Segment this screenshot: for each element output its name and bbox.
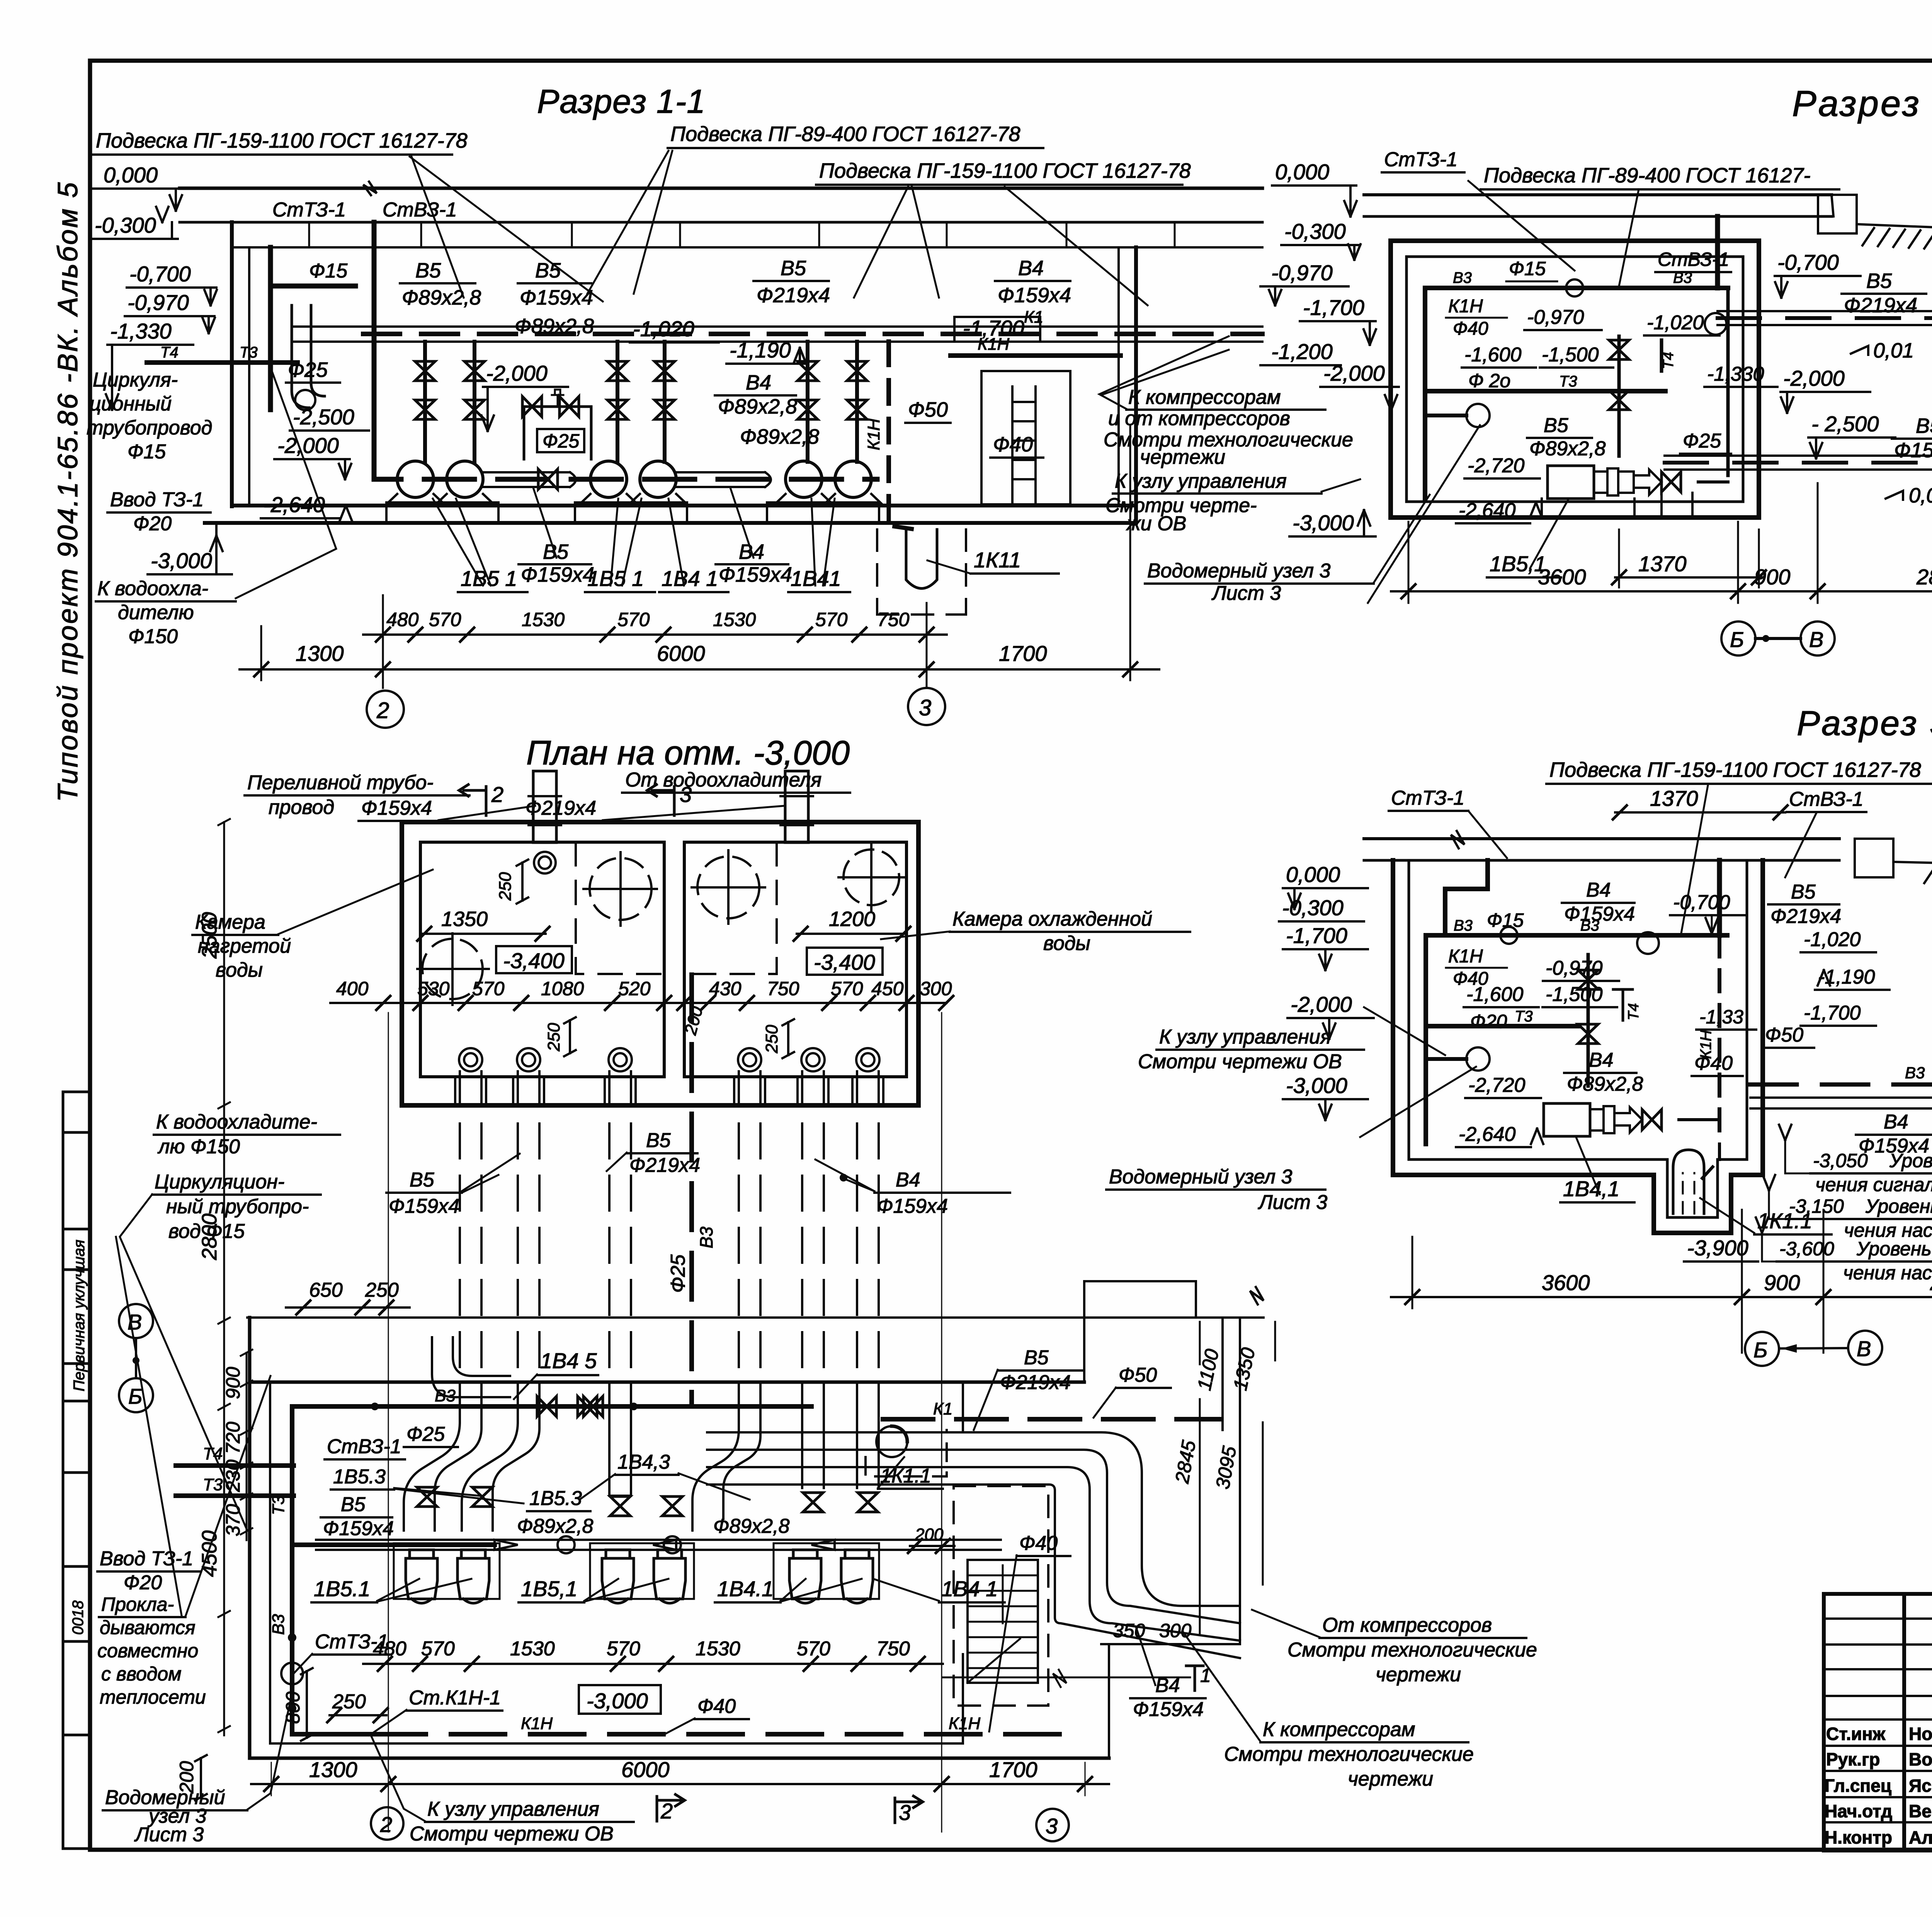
svg-text:1080: 1080 <box>541 978 584 999</box>
K1.1 pump circle <box>876 1426 907 1457</box>
gauge circles on B3 <box>1566 279 1583 296</box>
svg-text:-2,720: -2,720 <box>1468 455 1525 477</box>
svg-text:1530: 1530 <box>522 609 565 630</box>
svg-text:1300: 1300 <box>296 641 344 666</box>
svg-text:480: 480 <box>386 609 419 630</box>
R1 <box>87 83 1430 728</box>
svg-text:Ф89х2,8: Ф89х2,8 <box>1567 1073 1643 1095</box>
strip divider <box>63 1131 91 1134</box>
gauge circle on T3 <box>1466 1047 1490 1071</box>
svg-text:СтВЗ-1: СтВЗ-1 <box>383 199 457 221</box>
pump plan shapes <box>406 1550 873 1603</box>
stair arrow <box>968 1565 1020 1683</box>
svg-text:-1,020: -1,020 <box>1647 312 1704 334</box>
svg-text:К1Н: К1Н <box>1448 946 1483 967</box>
svg-text:Переливной трубо-: Переливной трубо- <box>247 771 434 794</box>
svg-text:Ф219х4: Ф219х4 <box>629 1154 700 1176</box>
lower pipe thin <box>1750 1098 1932 1108</box>
T3 horizontal thick <box>1430 389 1665 393</box>
pump base <box>1530 493 1696 518</box>
svg-text:-1,200: -1,200 <box>1271 339 1333 364</box>
header pipe outline top <box>292 325 1262 328</box>
svg-text:В3: В3 <box>1454 917 1473 934</box>
svg-text:-3,400: -3,400 <box>814 950 875 974</box>
svg-text:1В4 1: 1В4 1 <box>941 1577 998 1601</box>
svg-text:-1,020: -1,020 <box>633 317 694 341</box>
svg-text:Лист 3: Лист 3 <box>134 1823 204 1846</box>
svg-text:Б: Б <box>1730 627 1744 652</box>
pump room outer <box>1391 241 1759 518</box>
svg-text:2: 2 <box>660 1799 673 1823</box>
svg-text:1300: 1300 <box>309 1757 357 1782</box>
ceiling line bottom <box>1364 215 1832 218</box>
axis circle V left <box>119 1304 153 1338</box>
extension lines <box>1412 1210 1932 1353</box>
pedestal 2 <box>575 502 687 524</box>
svg-text:250: 250 <box>762 1025 781 1054</box>
svg-text:430: 430 <box>709 978 742 999</box>
svg-text:Смотри чертежи ОВ: Смотри чертежи ОВ <box>1138 1050 1342 1073</box>
strip divider <box>63 1362 91 1365</box>
riser flanges at wall <box>455 1077 883 1105</box>
svg-text:Ф20: Ф20 <box>124 1571 162 1594</box>
svg-text:Ф25: Ф25 <box>667 1254 689 1293</box>
svg-text:250: 250 <box>365 1279 399 1301</box>
svg-text:900: 900 <box>222 1367 244 1399</box>
svg-text:Ф159х4: Ф159х4 <box>520 286 593 309</box>
section mark 2 bottom <box>657 1794 685 1821</box>
svg-text:-1,500: -1,500 <box>1542 344 1599 366</box>
strip divider <box>63 1640 91 1643</box>
svg-text:400: 400 <box>336 978 369 999</box>
left drop pipe thick <box>1423 288 1427 499</box>
bypass valve mid <box>538 469 558 489</box>
ceiling break mark <box>1451 831 1464 848</box>
svg-text:чертежи: чертежи <box>1348 1768 1433 1790</box>
svg-text:В5: В5 <box>415 259 441 282</box>
axis circle B left <box>119 1378 153 1412</box>
mid dim chain <box>330 1002 946 1004</box>
pipe B3 right vertical <box>1726 288 1730 475</box>
svg-text:900: 900 <box>1754 565 1790 589</box>
svg-text:1370: 1370 <box>1638 552 1687 576</box>
svg-text:-0,970: -0,970 <box>1546 957 1603 979</box>
svg-text:Ф20: Ф20 <box>133 512 172 535</box>
thick F25 B3 dashed line <box>689 975 694 1406</box>
svg-text:Разрез 3-3: Разрез 3-3 <box>1797 704 1932 743</box>
pump room inner <box>1409 860 1747 1217</box>
svg-text:2: 2 <box>376 698 389 723</box>
stairs box <box>968 1560 1038 1683</box>
svg-text:Ф50: Ф50 <box>1119 1364 1157 1386</box>
svg-text:-1,700: -1,700 <box>1804 1002 1861 1024</box>
svg-text:Прокла-: Прокла- <box>101 1594 174 1615</box>
ceiling slab mid <box>180 221 1262 224</box>
svg-text:1530: 1530 <box>510 1638 555 1660</box>
svg-text:450: 450 <box>871 978 904 999</box>
svg-text:Ф159х4: Ф159х4 <box>877 1195 948 1217</box>
svg-text:3600: 3600 <box>1538 565 1586 589</box>
row line <box>1824 1617 1932 1620</box>
valves on risers <box>415 361 435 381</box>
riser pipes down (double dashed) <box>460 1071 879 1403</box>
axis circle V <box>1801 621 1835 655</box>
svg-text:-0,970: -0,970 <box>1527 306 1584 329</box>
axis connector <box>1755 637 1801 640</box>
ceiling slab top <box>180 187 1262 190</box>
svg-text:-2,640: -2,640 <box>264 492 325 517</box>
T3 horizontal <box>1430 1024 1578 1028</box>
suction header <box>316 1539 1001 1541</box>
dashed partition right chamber <box>684 842 777 974</box>
svg-text:-2,000: -2,000 <box>486 361 548 385</box>
room left inner wall <box>269 1382 271 1743</box>
suction manifold thick <box>374 456 877 479</box>
svg-text:Т3: Т3 <box>1559 373 1577 390</box>
floor bottom line <box>205 521 1136 525</box>
svg-text:-1,020: -1,020 <box>1804 928 1861 951</box>
svg-text:Камера охлажденной: Камера охлажденной <box>952 908 1152 930</box>
svg-text:1350: 1350 <box>1229 1346 1259 1393</box>
svg-text:750: 750 <box>767 978 799 999</box>
svg-text:Ф89х2,8: Ф89х2,8 <box>740 425 819 448</box>
svg-text:В: В <box>1857 1336 1871 1361</box>
pump dim row <box>363 1663 943 1665</box>
svg-text:-1,33: -1,33 <box>1699 1006 1743 1028</box>
big dim row <box>240 668 1159 671</box>
funnel shape <box>906 529 937 589</box>
svg-text:К водоохладите-: К водоохладите- <box>156 1111 317 1133</box>
svg-text:-0,300: -0,300 <box>95 213 156 237</box>
svg-text:1В4 1: 1В4 1 <box>662 566 718 591</box>
svg-text:Ф159х4: Ф159х4 <box>1564 903 1635 925</box>
svg-text:1В5,1: 1В5,1 <box>521 1577 577 1601</box>
ring under stub1 <box>534 852 556 873</box>
svg-text:чения сигнализации: чения сигнализации <box>1815 1174 1932 1195</box>
room top wall <box>250 1381 1084 1384</box>
ceiling line top <box>1364 837 1839 840</box>
svg-text:570: 570 <box>607 1638 640 1660</box>
svg-text:Н.контр: Н.контр <box>1825 1827 1892 1847</box>
strip divider <box>63 1228 91 1231</box>
svg-text:Ф89х2,8: Ф89х2,8 <box>713 1515 790 1537</box>
svg-text:-3,000: -3,000 <box>1286 1073 1347 1098</box>
stoyak B3 vertical <box>372 222 377 456</box>
lower pipe line1 <box>1665 455 1932 457</box>
strip divider <box>63 1471 91 1474</box>
svg-text:Ф89х2,8: Ф89х2,8 <box>402 286 481 309</box>
svg-text:чертежи: чертежи <box>1140 446 1225 468</box>
svg-text:Ф89х2,8: Ф89х2,8 <box>517 1515 594 1537</box>
svg-text:Ф219х4: Ф219х4 <box>757 284 830 307</box>
svg-text:6000: 6000 <box>657 641 705 666</box>
svg-text:530: 530 <box>417 978 450 999</box>
svg-text:совместно: совместно <box>97 1640 198 1662</box>
axis circle B <box>1745 1332 1779 1366</box>
chamber inner right <box>684 842 906 1077</box>
svg-text:В3: В3 <box>1453 269 1472 286</box>
svg-text:Водомерный узел 3: Водомерный узел 3 <box>1147 560 1331 582</box>
svg-text:Уровень вклю-: Уровень вклю- <box>1889 1150 1932 1171</box>
svg-text:К1Н: К1Н <box>864 419 883 450</box>
svg-text:В4: В4 <box>746 371 771 394</box>
svg-text:Ф25: Ф25 <box>543 430 580 452</box>
svg-text:провод: провод <box>269 796 334 819</box>
room bottom inner <box>270 1742 963 1745</box>
pump room inner <box>1406 257 1743 502</box>
svg-text:-2,000: -2,000 <box>1783 366 1845 390</box>
svg-text:-2,640: -2,640 <box>1459 1123 1516 1146</box>
pump and motor <box>1544 1103 1590 1136</box>
svg-text:-1,700: -1,700 <box>1286 923 1347 948</box>
T4 stub <box>1613 989 1633 1020</box>
svg-text:-0,970: -0,970 <box>1271 260 1333 285</box>
lower pipe dashes <box>1665 461 1932 465</box>
R2 <box>1364 83 1932 655</box>
svg-text:Ф150: Ф150 <box>128 625 178 648</box>
svg-text:Ф15: Ф15 <box>309 260 348 282</box>
svg-text:-3,000: -3,000 <box>1293 511 1354 535</box>
svg-text:570: 570 <box>429 609 461 630</box>
pipe T4 T3 stubs <box>147 360 298 365</box>
column line roles <box>1902 1594 1906 1851</box>
ground hatch left of tank <box>1862 228 1932 250</box>
svg-text:370: 370 <box>222 1504 244 1536</box>
svg-text:1: 1 <box>1200 1665 1211 1686</box>
svg-text:Ф159х4: Ф159х4 <box>719 563 792 586</box>
svg-text:800: 800 <box>282 1691 304 1724</box>
axis circle 2 bottom <box>371 1807 403 1840</box>
extension lines <box>1408 483 1932 603</box>
svg-text:Б: Б <box>1753 1338 1767 1362</box>
pipe B3 right vertical r3 <box>1717 860 1722 935</box>
svg-text:-3,050: -3,050 <box>1813 1150 1868 1171</box>
svg-text:3: 3 <box>1046 1814 1058 1838</box>
elbow risers 5-6 <box>802 1403 879 1488</box>
svg-text:230: 230 <box>222 1459 244 1492</box>
svg-text:1200: 1200 <box>829 907 875 931</box>
svg-text:-1,600: -1,600 <box>1464 344 1522 366</box>
upper slab line across <box>247 1316 1264 1319</box>
R3 <box>1106 704 1932 1366</box>
svg-text:К узлу управления: К узлу управления <box>1159 1026 1331 1048</box>
svg-text:Ввод ТЗ-1: Ввод ТЗ-1 <box>110 489 204 511</box>
svg-text:дителю: дителю <box>118 601 194 624</box>
svg-text:1700: 1700 <box>989 1757 1037 1782</box>
manhole circle A <box>417 933 489 1005</box>
svg-text:Гл.спец: Гл.спец <box>1825 1776 1891 1796</box>
svg-text:1100: 1100 <box>1193 1347 1223 1392</box>
section mark 1 right <box>1186 1666 1203 1691</box>
svg-text:480: 480 <box>373 1638 406 1660</box>
small dim row <box>363 633 947 636</box>
svg-text:3: 3 <box>899 1800 911 1825</box>
svg-text:Ф 2о: Ф 2о <box>1468 370 1510 392</box>
svg-text:-0,700: -0,700 <box>1777 250 1839 274</box>
svg-text:1В5.3: 1В5.3 <box>529 1487 582 1510</box>
extension lines <box>261 425 1130 688</box>
svg-text:В5: В5 <box>1544 414 1569 437</box>
row line <box>1824 1718 1932 1721</box>
svg-text:В4: В4 <box>1589 1049 1614 1071</box>
svg-text:В5: В5 <box>646 1129 671 1152</box>
axis connector <box>1779 1348 1848 1348</box>
svg-text:1В4,3: 1В4,3 <box>617 1451 670 1473</box>
svg-text:-1,700: -1,700 <box>1303 295 1364 320</box>
svg-text:750: 750 <box>877 609 910 630</box>
svg-text:К1: К1 <box>933 1399 952 1418</box>
svg-text:К1Н: К1Н <box>521 1714 553 1733</box>
row line <box>1824 1643 1932 1646</box>
svg-text:Смотри технологические: Смотри технологические <box>1224 1743 1474 1765</box>
dim ext lines right <box>1200 1322 1275 1635</box>
svg-text:Ф159х4: Ф159х4 <box>998 284 1071 307</box>
svg-text:Волчков: Волчков <box>1909 1749 1932 1769</box>
svg-text:Ф159х4: Ф159х4 <box>1894 439 1932 462</box>
svg-text:В3: В3 <box>1905 1064 1925 1082</box>
svg-text:В5: В5 <box>1791 881 1816 903</box>
svg-text:В5: В5 <box>1916 414 1932 438</box>
svg-text:воды: воды <box>1043 932 1090 955</box>
svg-text:1В4.1: 1В4.1 <box>717 1577 774 1601</box>
K1N horizontal thick <box>951 353 1121 358</box>
svg-text:Новик: Новик <box>1909 1724 1932 1744</box>
pump capsule pipe 2 <box>676 472 771 487</box>
svg-text:720: 720 <box>222 1422 244 1454</box>
pipe horizontal f15 <box>270 284 355 289</box>
elbow risers 3-4 <box>609 1403 760 1531</box>
manhole circle C <box>692 850 765 924</box>
section mark 3 bottom <box>895 1796 923 1823</box>
svg-text:0,000: 0,000 <box>1275 160 1329 184</box>
leader to pipe <box>236 367 336 598</box>
svg-text:Рук.гр: Рук.гр <box>1826 1749 1880 1769</box>
svg-text:Разрез 2-2: Разрез 2-2 <box>1792 83 1932 124</box>
svg-text:Ст.К1Н-1: Ст.К1Н-1 <box>409 1687 501 1709</box>
svg-text:Нач.отд: Нач.отд <box>1825 1801 1892 1821</box>
B3 header thick in room <box>292 1404 811 1409</box>
floor top line <box>232 504 1136 507</box>
svg-text:Т3: Т3 <box>203 1475 223 1494</box>
svg-text:Ф25: Ф25 <box>406 1423 445 1445</box>
pump capsule pipe 1 <box>483 472 576 487</box>
svg-text:1530: 1530 <box>713 609 756 630</box>
svg-text:Т4: Т4 <box>160 344 179 361</box>
section mark 2 top <box>459 785 486 815</box>
svg-text:-1,600: -1,600 <box>1466 983 1524 1006</box>
corridor right walls <box>1223 1318 1240 1644</box>
svg-text:В: В <box>1809 627 1823 652</box>
stairs dashed enclosure <box>954 1486 1048 1706</box>
svg-text:3: 3 <box>680 782 692 807</box>
boxed -3,400 left <box>496 946 572 973</box>
row line <box>1824 1821 1932 1823</box>
svg-text:0,01: 0,01 <box>1873 339 1914 362</box>
svg-text:В3: В3 <box>269 1614 288 1635</box>
axis circle V <box>1848 1331 1882 1365</box>
svg-text:В4: В4 <box>1018 257 1044 280</box>
svg-text:Т4: Т4 <box>1626 1003 1642 1020</box>
pump and motor <box>1548 466 1594 499</box>
ladder rungs <box>1012 402 1036 479</box>
pumps <box>388 461 442 502</box>
svg-text:Ф40: Ф40 <box>697 1695 736 1718</box>
svg-text:Уровень вклю-: Уровень вклю- <box>1865 1195 1932 1217</box>
svg-text:570: 570 <box>617 609 650 630</box>
svg-text:ционный: ционный <box>90 393 172 415</box>
pipe stolyak T3 vertical <box>268 247 273 410</box>
svg-text:-2,000: -2,000 <box>277 433 339 458</box>
ceiling line top <box>1364 193 1832 196</box>
svg-text:570: 570 <box>472 978 505 999</box>
svg-text:СтВЗ-1: СтВЗ-1 <box>1789 788 1864 810</box>
strip divider <box>63 1268 91 1271</box>
svg-text:-2,000: -2,000 <box>1291 992 1352 1016</box>
svg-text:300: 300 <box>1159 1620 1192 1641</box>
upper pipe line2 <box>1718 324 1932 326</box>
svg-text:1В5 1: 1В5 1 <box>587 566 644 591</box>
svg-text:0,000: 0,000 <box>104 163 158 187</box>
title block outer <box>1824 1594 1932 1851</box>
svg-text:План на отм. -3,000: План на отм. -3,000 <box>526 734 850 772</box>
svg-text:Циркуляцион-: Циркуляцион- <box>155 1171 284 1193</box>
svg-text:Ф40: Ф40 <box>1453 318 1488 339</box>
overflow stub 2 <box>785 771 808 843</box>
svg-text:- 2,500: - 2,500 <box>1811 412 1879 436</box>
row line <box>1824 1745 1932 1747</box>
riser pipes with valves <box>425 342 857 462</box>
svg-text:В4: В4 <box>896 1169 920 1191</box>
K1 thick dashed to right <box>883 1417 1220 1422</box>
K1N bottom dashed <box>372 1732 1060 1737</box>
svg-text:-0,300: -0,300 <box>1282 896 1344 920</box>
svg-text:Ф159х4: Ф159х4 <box>1133 1698 1204 1721</box>
svg-text:Разрез 1-1: Разрез 1-1 <box>537 83 706 120</box>
valves above pumps <box>417 1487 437 1507</box>
corridor bottom <box>1109 1644 1240 1758</box>
dim chain R3 <box>1391 1296 1932 1298</box>
upper pipe line1 <box>1718 310 1932 312</box>
svg-text:Смотри чертежи ОВ: Смотри чертежи ОВ <box>410 1823 614 1845</box>
row line <box>1824 1796 1932 1798</box>
boxed -3,000 <box>579 1685 661 1714</box>
K1.1 dashed box <box>866 1430 947 1476</box>
svg-text:жи ОВ: жи ОВ <box>1126 512 1186 535</box>
svg-text:К1Н: К1Н <box>1697 1030 1714 1059</box>
sump pump funnel <box>1673 1150 1704 1214</box>
svg-text:В5: В5 <box>1866 269 1892 293</box>
svg-text:-1,700: -1,700 <box>963 316 1024 340</box>
svg-text:Ф219х4: Ф219х4 <box>1000 1371 1071 1394</box>
drain funnel 1K11 dashed box <box>877 529 966 615</box>
row line <box>1824 1668 1932 1670</box>
break mark right <box>1250 1287 1264 1304</box>
left master dim line <box>218 819 230 1735</box>
svg-text:К узлу управления: К узлу управления <box>1115 470 1287 492</box>
lower pipe line2 <box>1665 468 1932 471</box>
svg-text:570: 570 <box>815 609 848 630</box>
svg-text:Ф20: Ф20 <box>1470 1011 1507 1032</box>
svg-text:В5: В5 <box>781 257 806 280</box>
gauge circle left <box>281 1663 303 1684</box>
svg-text:2: 2 <box>491 782 503 807</box>
svg-text:К компрессорам: К компрессорам <box>1128 386 1281 409</box>
svg-text:-3,150: -3,150 <box>1789 1195 1844 1217</box>
axis circle B <box>1721 621 1755 655</box>
svg-text:К компрессорам: К компрессорам <box>1263 1718 1415 1741</box>
pipe room-to-tank dashed B3 <box>1750 1083 1932 1087</box>
revision strip box <box>63 1092 91 1849</box>
